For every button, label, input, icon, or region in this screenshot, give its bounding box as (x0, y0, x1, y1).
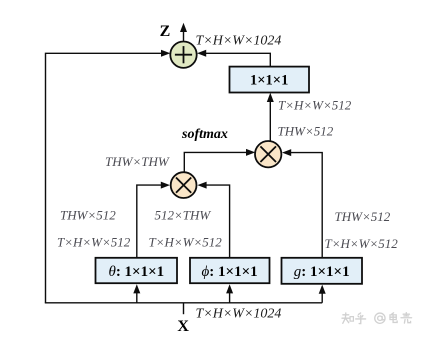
svg-text:Z: Z (160, 23, 171, 40)
svg-text:ϕ: 1×1×1: ϕ: 1×1×1 (202, 264, 258, 280)
svg-text:T×H×W×512: T×H×W×512 (278, 98, 352, 113)
svg-text:T×H×W×1024: T×H×W×1024 (196, 307, 282, 322)
svg-text:T×H×W×512: T×H×W×512 (325, 236, 399, 251)
svg-text:T×H×W×512: T×H×W×512 (57, 235, 131, 250)
svg-text:512×THW: 512×THW (155, 208, 212, 223)
svg-text:T×H×W×512: T×H×W×512 (149, 235, 223, 250)
svg-text:THW×THW: THW×THW (105, 154, 170, 169)
svg-text:g: 1×1×1: g: 1×1×1 (294, 264, 350, 280)
svg-text:θ: 1×1×1: θ: 1×1×1 (108, 264, 164, 280)
svg-text:THW×512: THW×512 (278, 124, 334, 139)
svg-text:THW×512: THW×512 (60, 208, 116, 223)
svg-text:T×H×W×1024: T×H×W×1024 (196, 34, 282, 49)
svg-text:1×1×1: 1×1×1 (250, 73, 288, 89)
svg-text:X: X (177, 318, 189, 335)
svg-text:softmax: softmax (181, 127, 228, 142)
svg-text:THW×512: THW×512 (335, 209, 391, 224)
